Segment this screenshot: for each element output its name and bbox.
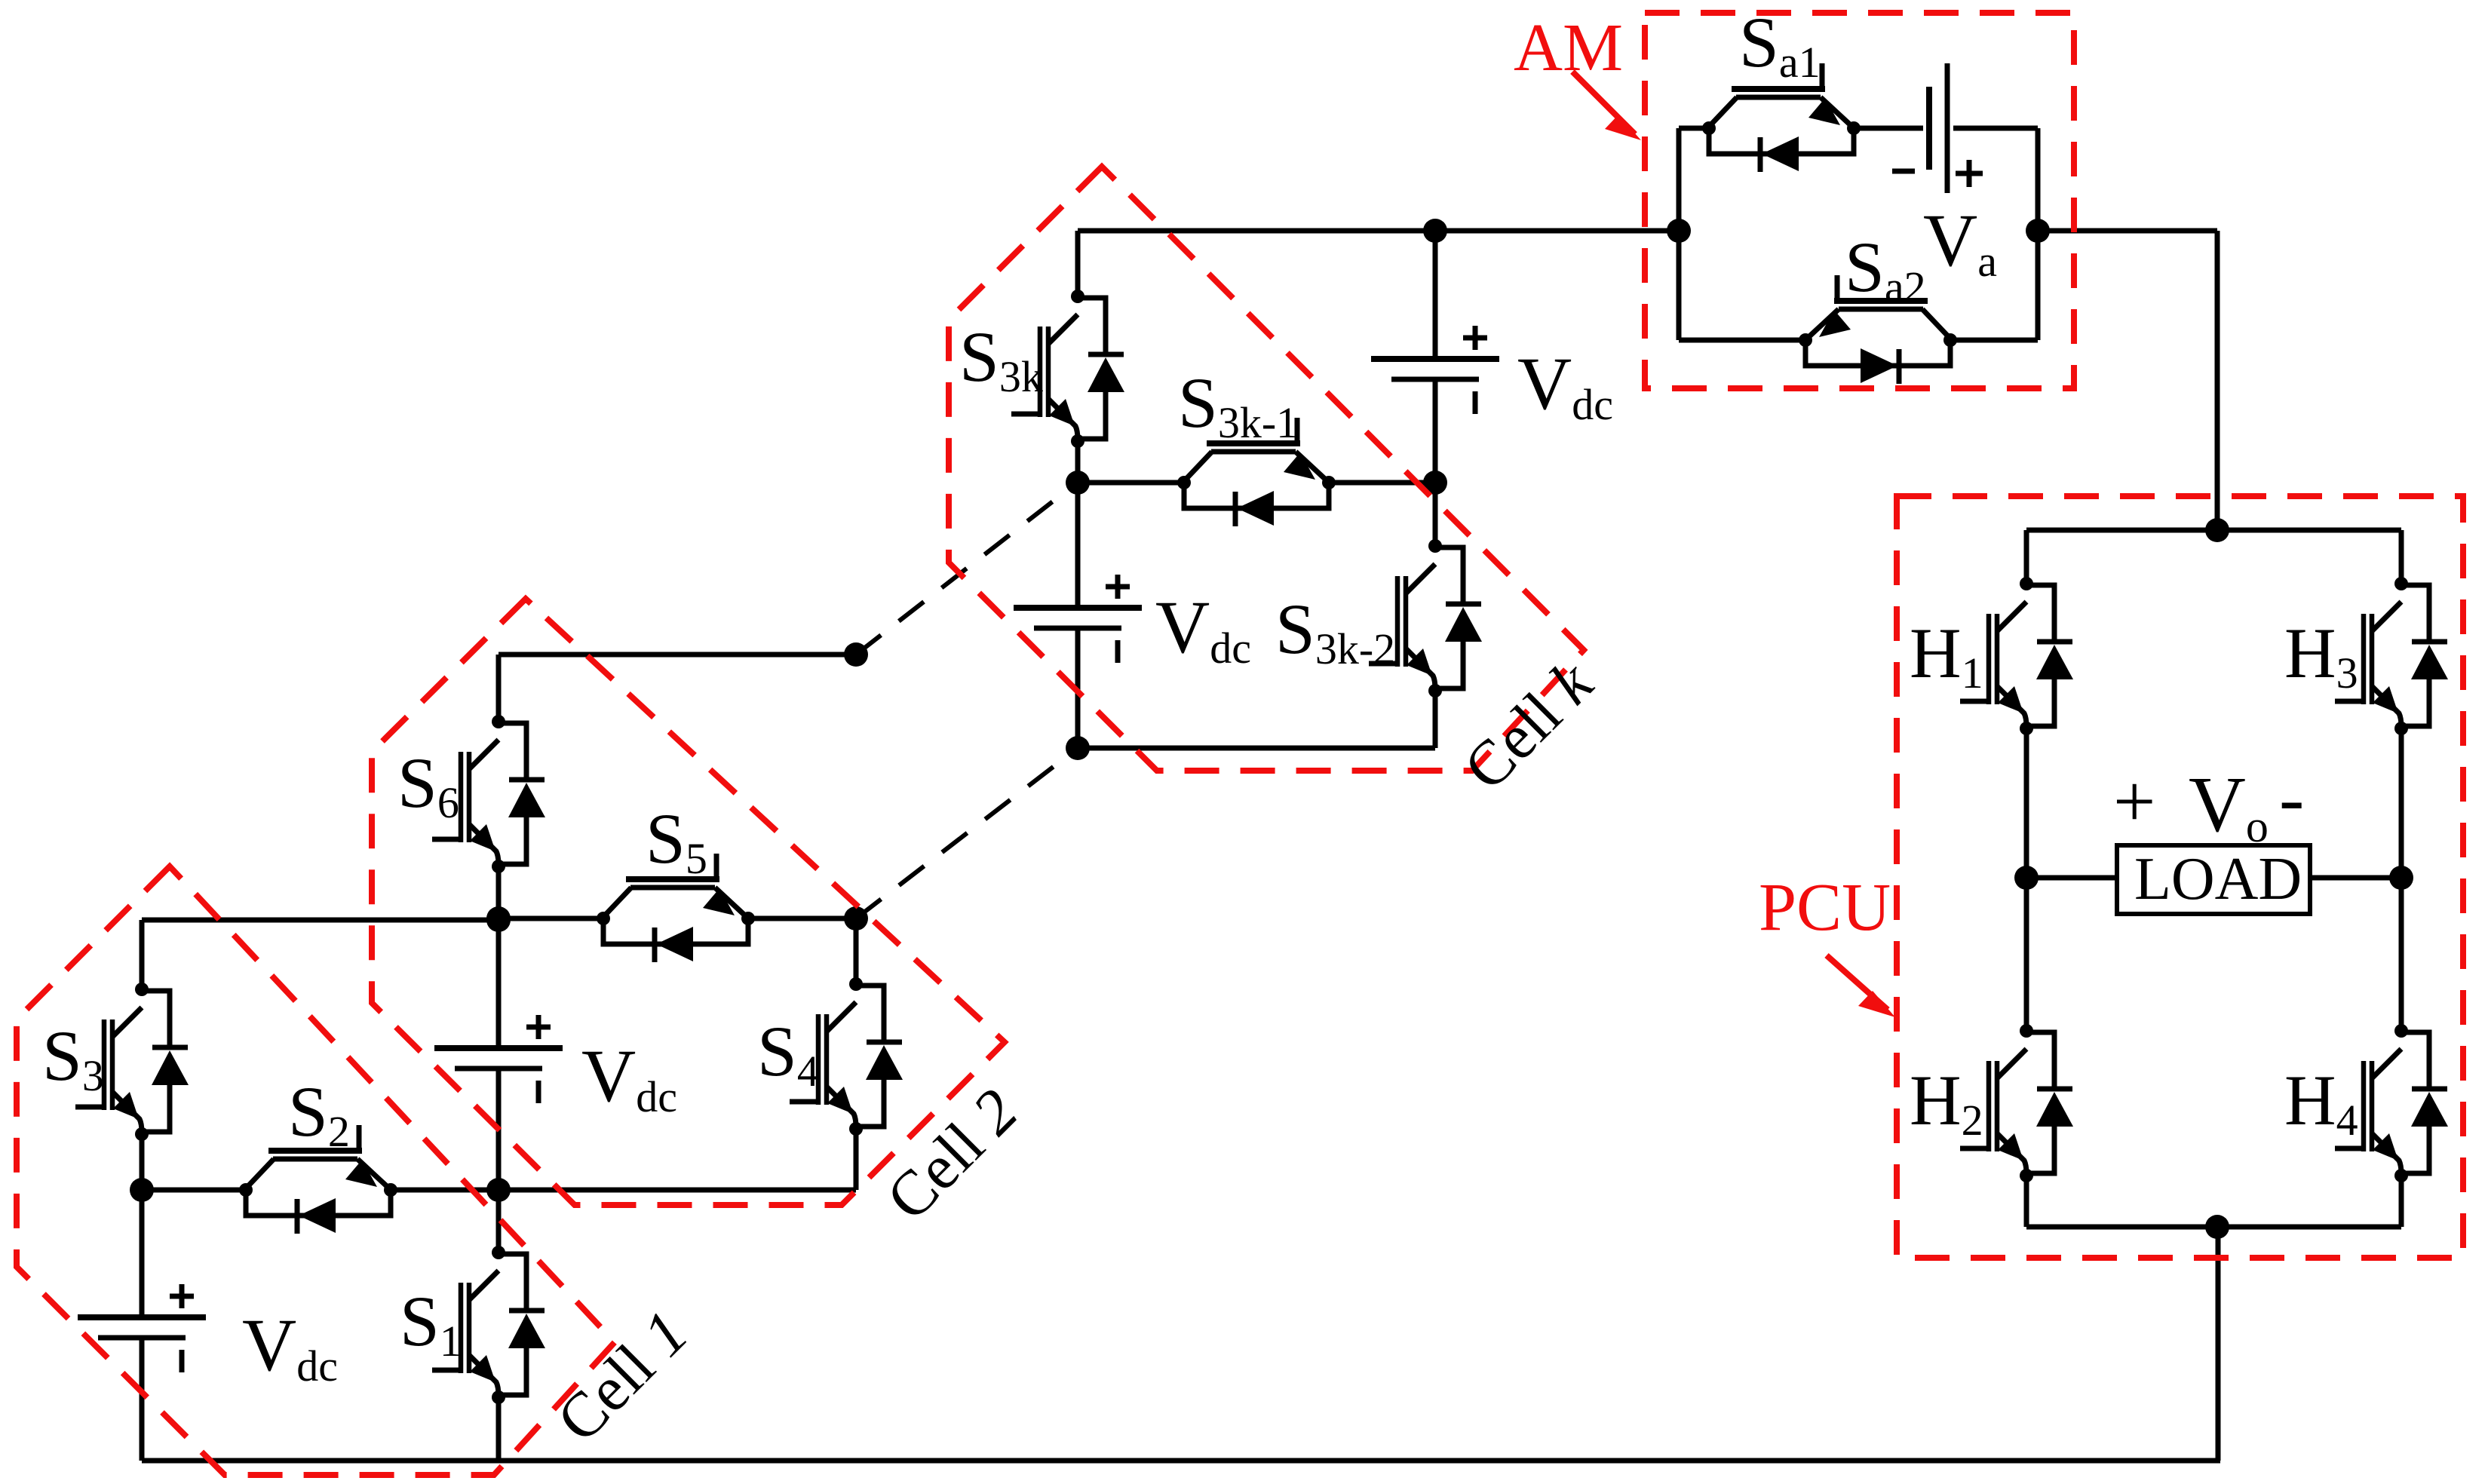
- svg-text:-: -: [2279, 756, 2304, 840]
- svg-text:AM: AM: [1514, 11, 1623, 85]
- svg-text:+: +: [2113, 759, 2155, 843]
- svg-text:PCU: PCU: [1759, 870, 1891, 945]
- svg-text:LOAD: LOAD: [2134, 846, 2302, 912]
